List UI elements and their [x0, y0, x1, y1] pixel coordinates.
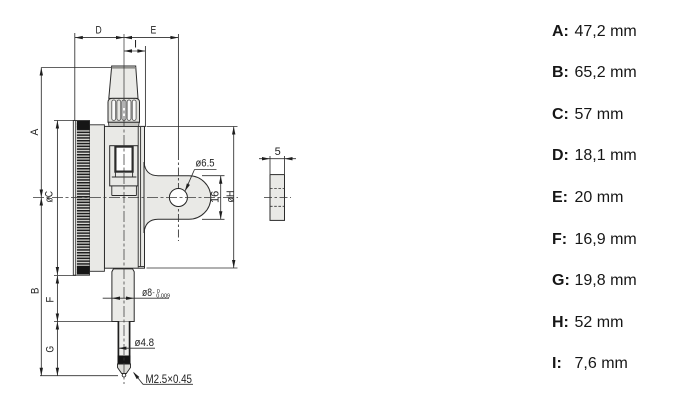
dimension E — [124, 36, 178, 39]
svg-text:G: G — [45, 346, 57, 353]
stem — [112, 269, 134, 322]
case body — [104, 126, 144, 268]
label M2.5x0.45 with leader — [132, 371, 193, 385]
dimension B — [40, 198, 118, 376]
lug hole — [169, 189, 187, 207]
contact point cone — [118, 364, 131, 377]
svg-text:0.009: 0.009 — [156, 294, 170, 300]
contact point knurled band — [118, 356, 131, 365]
dimension G — [56, 322, 59, 376]
dimension 5 (plate thickness) — [259, 156, 296, 174]
dimension C (dial diameter) — [54, 121, 76, 276]
bezel (ribbed dial rim) — [73, 121, 89, 276]
dimension list — [0, 23, 696, 43]
side view plate — [264, 175, 291, 221]
dimension 16 (lug height) — [202, 176, 225, 220]
svg-text:F: F — [45, 296, 57, 302]
stem clamp detail — [110, 146, 138, 196]
dimension A — [40, 68, 112, 198]
label ø6.5 with leader — [183, 170, 216, 193]
dimension I — [124, 46, 145, 127]
dimension F — [54, 276, 112, 322]
knurled ring — [108, 98, 140, 126]
lug (mounting ear) — [144, 162, 211, 233]
lug hole centerline vertical / ext E — [177, 34, 179, 241]
dimension ø8 -0.009 — [103, 297, 169, 300]
case step lines — [138, 127, 145, 268]
svg-text:A: A — [29, 128, 41, 135]
spindle — [118, 322, 130, 356]
horizontal centerline — [33, 197, 238, 199]
dimension D — [75, 33, 124, 121]
dimension H (case diameter) — [147, 127, 238, 269]
top cap — [109, 66, 138, 98]
dimension ø4.8 — [118, 347, 155, 350]
vertical centerline (stem axis) — [123, 34, 125, 384]
flange — [90, 125, 105, 271]
svg-text:ø4.8: ø4.8 — [135, 337, 155, 349]
